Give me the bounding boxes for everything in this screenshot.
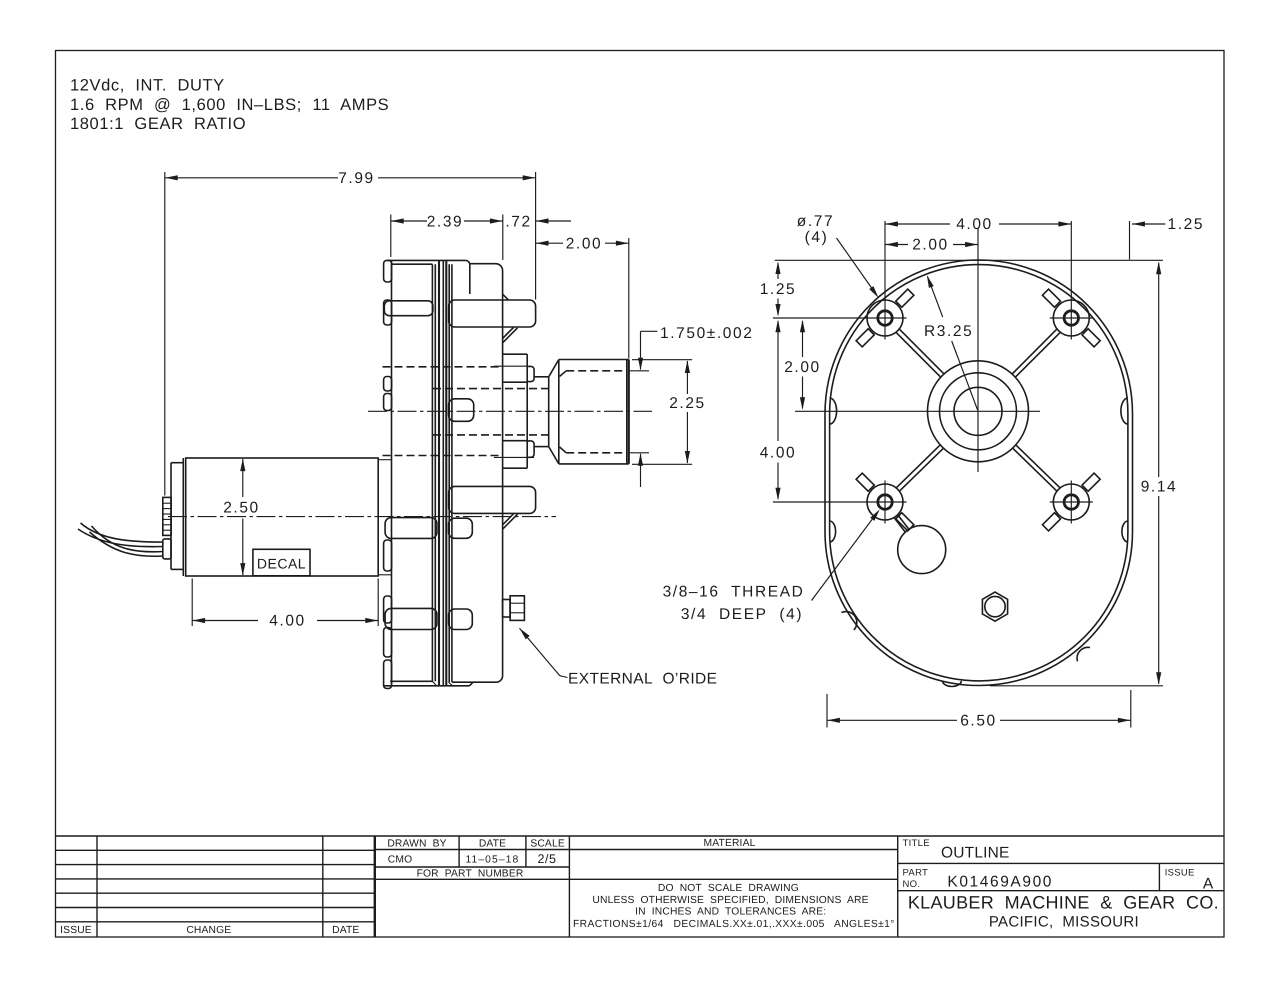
svg-text:FRACTIONS±1/64 DECIMALS.XX±.: FRACTIONS±1/64 DECIMALS.XX±.01,.XXX±.005… <box>573 919 895 930</box>
revision table (left) <box>56 849 375 851</box>
svg-text:4.00: 4.00 <box>269 613 306 630</box>
boss face tabs <box>527 366 534 381</box>
svg-text:PACIFIC, MISSOURI: PACIFIC, MISSOURI <box>989 914 1139 931</box>
drawn-by block <box>458 836 460 867</box>
output shaft centerline <box>368 410 652 412</box>
svg-text:3/8–16 THREAD: 3/8–16 THREAD <box>663 584 805 601</box>
coupling body <box>558 360 560 464</box>
gearbox gasket joint lines <box>431 264 433 681</box>
motor body <box>186 458 379 576</box>
gearbox mounting ear (upper) <box>449 300 536 327</box>
svg-text:DATE: DATE <box>332 925 359 936</box>
gearbox outline (obround) <box>825 260 1133 686</box>
svg-text:ISSUE: ISSUE <box>60 925 92 936</box>
svg-text:PART: PART <box>903 868 929 879</box>
hole crosshairs <box>773 317 907 319</box>
left view: gear motor side elevation <box>78 170 880 689</box>
gearbox mounting ear (lower) <box>449 486 536 513</box>
svg-text:2.00: 2.00 <box>912 237 949 254</box>
svg-text:NO.: NO. <box>903 879 921 890</box>
svg-text:1.25: 1.25 <box>1168 216 1205 233</box>
gearbox bottom <box>390 680 432 682</box>
motor flange lines <box>378 459 391 461</box>
DECAL label box <box>253 549 310 576</box>
dim 2.00 horizontal <box>885 244 908 246</box>
svg-text:11–05–18: 11–05–18 <box>465 855 519 866</box>
svg-text:.72: .72 <box>505 213 531 230</box>
svg-text:4.00: 4.00 <box>956 216 993 233</box>
svg-text:DATE: DATE <box>479 839 506 850</box>
dim 7.99 overall length <box>164 172 166 496</box>
dim 9.14 right vertical <box>1158 263 1160 477</box>
dim 4.00 hole spacing horizontal <box>885 223 950 225</box>
gearbox left mounting tabs <box>384 260 392 282</box>
dim 2.50 (motor diameter) <box>242 459 244 497</box>
motor terminal block lower <box>163 539 171 559</box>
front view: gearbox face <box>760 213 1204 730</box>
svg-text:K01469A900: K01469A900 <box>947 874 1053 891</box>
gearbox inner outline <box>830 265 1128 681</box>
ext line over top of oval <box>775 259 1163 261</box>
gearbox through-bolt band A <box>384 301 433 316</box>
leader to lower-left mounting hole <box>812 514 877 601</box>
svg-text:2.50: 2.50 <box>223 500 260 517</box>
svg-text:1.750±.002: 1.750±.002 <box>660 325 753 342</box>
external override hex bolt <box>503 600 511 618</box>
dim 1.25 top right <box>1129 221 1131 260</box>
casting bumps on outline <box>830 398 837 424</box>
svg-text:9.14: 9.14 <box>1141 479 1178 496</box>
boss base flange <box>503 353 528 355</box>
svg-text:OUTLINE: OUTLINE <box>941 845 1010 862</box>
gusset ribs <box>503 294 509 300</box>
gearbox band B (right tab) <box>449 518 473 538</box>
leader: external override <box>520 628 530 639</box>
svg-text:2.00: 2.00 <box>784 359 821 376</box>
svg-text:EXTERNAL O’RIDE: EXTERNAL O’RIDE <box>568 671 717 688</box>
dim 2.00 shaft length <box>536 242 563 244</box>
gearbox band B (left) <box>385 518 437 539</box>
stub brace to idler circle <box>894 518 905 532</box>
svg-text:FOR PART NUMBER: FOR PART NUMBER <box>417 869 524 880</box>
svg-text:DRAWN BY: DRAWN BY <box>387 839 446 850</box>
mounting holes with wings <box>856 289 914 347</box>
gearbox housing left plate <box>391 260 393 683</box>
dim 1.750 bore <box>641 330 658 332</box>
output hub circles <box>928 361 1029 462</box>
gearbox band C (left) <box>385 608 437 629</box>
dim 4.00 (motor length) <box>191 579 193 627</box>
dim 1.25 left <box>777 263 779 279</box>
dim 4.00 left vertical <box>777 321 779 441</box>
gearbox center small tab on face <box>449 399 474 422</box>
svg-text:KLAUBER MACHINE & GEAR CO.: KLAUBER MACHINE & GEAR CO. <box>908 893 1219 913</box>
svg-text:1.25: 1.25 <box>760 281 797 298</box>
motor lead wires <box>81 523 163 542</box>
view centerlines <box>795 410 1040 412</box>
title / part number block <box>897 836 899 937</box>
hidden gear outline <box>383 366 503 368</box>
motor end cap <box>171 462 183 464</box>
note R3.25 <box>928 277 943 318</box>
svg-text:ø.77: ø.77 <box>797 213 834 230</box>
svg-text:ISSUE: ISSUE <box>1165 868 1195 879</box>
svg-text:CHANGE: CHANGE <box>186 925 231 936</box>
output boss <box>503 381 528 383</box>
svg-text:2/5: 2/5 <box>538 852 557 866</box>
svg-text:TITLE: TITLE <box>903 838 930 849</box>
coupling bore (hidden) <box>566 370 627 372</box>
hex plug <box>982 592 1007 621</box>
svg-text:2.00: 2.00 <box>566 235 603 252</box>
title block <box>56 836 1225 937</box>
svg-text:(4): (4) <box>805 229 829 246</box>
svg-text:1.6 RPM @ 1,600 IN–LBS; 1: 1.6 RPM @ 1,600 IN–LBS; 11 AMPS <box>70 96 389 114</box>
svg-text:4.00: 4.00 <box>760 444 797 461</box>
motor centerline <box>168 516 556 518</box>
dim 2.00 left vertical <box>802 321 804 357</box>
svg-text:CMO: CMO <box>388 855 412 866</box>
idler cover circle <box>898 526 946 574</box>
svg-text:MATERIAL: MATERIAL <box>704 838 756 849</box>
svg-text:7.99: 7.99 <box>338 170 375 187</box>
svg-text:SCALE: SCALE <box>530 839 565 850</box>
title block top line <box>56 835 1225 837</box>
dim 2.39 gearbox width <box>390 215 392 258</box>
svg-text:R3.25: R3.25 <box>924 323 973 340</box>
svg-text:UNLESS OTHERWISE SPECIFIED,: UNLESS OTHERWISE SPECIFIED, DIMENSIONS A… <box>592 895 868 906</box>
svg-text:6.50: 6.50 <box>960 713 997 730</box>
svg-text:1801:1 GEAR RATIO: 1801:1 GEAR RATIO <box>70 115 246 133</box>
gearbox right cover plate <box>452 264 503 683</box>
X-braces hub to holes <box>896 332 941 377</box>
shaft neck <box>534 376 549 378</box>
svg-text:3/4 DEEP (4): 3/4 DEEP (4) <box>681 606 803 623</box>
svg-text:12Vdc, INT. DUTY: 12Vdc, INT. DUTY <box>70 77 225 95</box>
svg-text:DECAL: DECAL <box>257 556 306 572</box>
svg-text:IN INCHES AND TOLERANCES A: IN INCHES AND TOLERANCES ARE: <box>635 906 826 917</box>
hidden shaft lines <box>433 388 549 390</box>
coupling chamfers <box>549 360 559 377</box>
svg-text:A: A <box>1203 876 1215 893</box>
svg-text:2.39: 2.39 <box>427 213 464 230</box>
dim 6.50 bottom <box>826 694 828 728</box>
dim 2.25 coupling dia <box>632 359 692 361</box>
motor terminal block upper (ribbed) <box>163 497 171 535</box>
svg-text:DO NOT SCALE DRAWING: DO NOT SCALE DRAWING <box>658 883 799 894</box>
gearbox band C (right tab) <box>449 609 473 630</box>
svg-text:2.25: 2.25 <box>669 395 706 412</box>
